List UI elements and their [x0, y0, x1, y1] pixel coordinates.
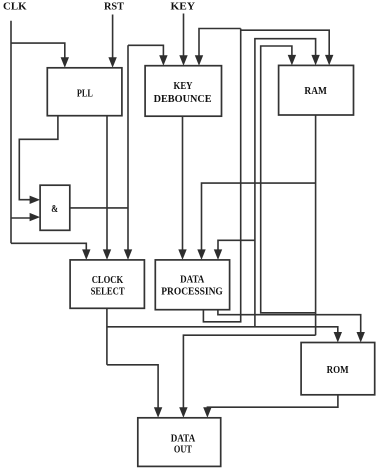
wire KEY to KEY DEBOUNCE pin2	[183, 14, 185, 59]
arrow into CLOCK SELECT pin1	[82, 249, 90, 260]
wire CLK branch to AND pin2	[11, 217, 31, 219]
svg-text:RST: RST	[104, 2, 124, 13]
label CLOCK SELECT	[91, 275, 125, 298]
arrow into AND pin2	[30, 213, 40, 221]
svg-text:PLL: PLL	[77, 88, 93, 99]
svg-text:DEBOUNCE: DEBOUNCE	[154, 94, 212, 105]
label DATA OUT	[171, 433, 196, 455]
arrow into ROM pin1	[334, 332, 342, 343]
arrow into KEY DEBOUNCE pin1	[159, 55, 167, 65]
svg-text:RAM: RAM	[304, 86, 327, 97]
wire clock net branch to DATA PROCESSING pin3	[218, 240, 255, 252]
label CLK	[3, 2, 27, 13]
label KEY DEBOUNCE	[154, 81, 212, 105]
block PLL	[47, 68, 122, 116]
label RAM	[304, 86, 327, 97]
wire RAM out bottom run to DATA OUT pin2	[183, 335, 315, 410]
arrow into PLL pin1	[61, 57, 69, 68]
block DATA OUT	[138, 418, 221, 467]
block KEY DEBOUNCE	[145, 66, 221, 117]
wire AND net top run to KEY DEBOUNCE pin1	[128, 45, 163, 58]
wire clock net long run to ROM pin1	[107, 327, 338, 335]
wire RAM out trunk vertical	[315, 115, 317, 335]
svg-text:KEY: KEY	[174, 81, 194, 92]
wire RST to PLL pin2	[112, 15, 114, 61]
arrow into PLL pin2	[108, 57, 116, 68]
wire clock net riser to RAM pin2	[255, 39, 316, 327]
wire RAM out feedback branch to RAM pin1	[261, 46, 316, 313]
svg-text:CLOCK: CLOCK	[92, 275, 124, 286]
wire KEY DEBOUNCE out to DATA PROCESSING pin1	[182, 116, 184, 252]
arrow into CLOCK SELECT pin3	[124, 249, 132, 260]
arrow into AND pin1	[30, 196, 40, 204]
wire DATA PROCESSING out2 to ROM pin2	[218, 310, 361, 335]
block CLOCK SELECT	[70, 260, 144, 308]
wire PLL out1 to AND pin1	[19, 116, 58, 200]
arrow into RAM pin2	[311, 55, 319, 66]
wire CLOCK SELECT out to DATA OUT pin1	[107, 365, 158, 410]
arrow into DATA PROCESSING pin1	[178, 249, 186, 260]
wire PLL out2 to CLOCK SELECT pin2	[106, 116, 108, 252]
arrow into RAM pin1	[288, 55, 296, 66]
wire DP out1 top run to RAM pin3	[241, 30, 330, 58]
wire CLK branch to PLL pin1	[11, 43, 65, 60]
arrow into CLOCK SELECT pin2	[103, 249, 111, 260]
arrow into DATA OUT pin3	[203, 407, 211, 418]
svg-text:KEY: KEY	[171, 2, 196, 13]
label DATA PROCESSING	[161, 275, 223, 298]
wire ROM out to DATA OUT pin3	[207, 395, 338, 410]
svg-text:PROCESSING: PROCESSING	[161, 286, 223, 297]
label ROM	[327, 365, 349, 376]
arrow into ROM pin2	[357, 332, 365, 343]
wire CLK bottom run to CLOCK SELECT pin1	[11, 243, 86, 252]
svg-text:DATA: DATA	[171, 433, 196, 444]
arrow into DATA OUT pin2	[179, 407, 187, 418]
label PLL	[77, 88, 93, 99]
label AND symbol	[51, 204, 58, 215]
arrow into KEY DEBOUNCE pin2	[179, 55, 187, 65]
arrow into KEY DEBOUNCE pin3	[195, 55, 203, 65]
svg-text:OUT: OUT	[174, 445, 192, 456]
svg-text:DATA: DATA	[180, 275, 205, 286]
block ROM	[301, 343, 375, 395]
label RST	[104, 2, 124, 13]
svg-text:SELECT: SELECT	[91, 287, 125, 298]
wire RAM out branch to DATA PROCESSING pin2	[202, 183, 316, 252]
svg-text:CLK: CLK	[3, 2, 27, 13]
block AND gate	[40, 185, 70, 230]
arrow into RAM pin3	[325, 55, 333, 66]
wire CLOCK SELECT out trunk	[106, 308, 108, 365]
wire AND net vertical to CLOCK SELECT pin3	[127, 45, 129, 252]
arrow into DATA PROCESSING pin2	[197, 249, 205, 260]
wire DATA PROCESSING out1 riser	[203, 29, 240, 322]
svg-text:&: &	[51, 204, 58, 215]
arrow into DATA OUT pin1	[154, 407, 162, 418]
label KEY	[171, 2, 196, 13]
wire AND output horizontal	[70, 207, 128, 209]
block RAM	[279, 65, 354, 115]
svg-text:ROM: ROM	[327, 365, 349, 376]
wire CLK trunk vertical	[10, 21, 12, 244]
wire DP out1 top run to KEY DEBOUNCE pin3	[199, 29, 241, 59]
block DATA PROCESSING	[155, 260, 229, 310]
arrow into DATA PROCESSING pin3	[214, 249, 222, 260]
